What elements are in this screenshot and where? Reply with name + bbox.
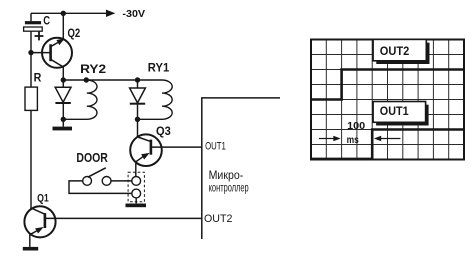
svg-text:RY2: RY2 [80,62,106,76]
svg-text:-30V: -30V [122,8,145,20]
svg-text:Микро-: Микро- [209,170,244,182]
svg-text:Q3: Q3 [156,124,171,138]
svg-text:DOOR: DOOR [76,150,108,165]
svg-text:OUT2: OUT2 [204,213,232,225]
svg-text:контроллер: контроллер [209,183,249,195]
svg-text:C: C [43,15,50,27]
svg-text:Q1: Q1 [37,193,49,205]
svg-text:R: R [34,70,42,84]
svg-text:OUT1: OUT1 [205,140,226,152]
svg-text:OUT2: OUT2 [380,44,410,58]
svg-text:Q2: Q2 [68,27,81,40]
svg-text:ms: ms [347,135,359,146]
svg-text:OUT1: OUT1 [380,104,409,118]
svg-text:100: 100 [347,120,365,132]
svg-text:RY1: RY1 [148,63,170,75]
